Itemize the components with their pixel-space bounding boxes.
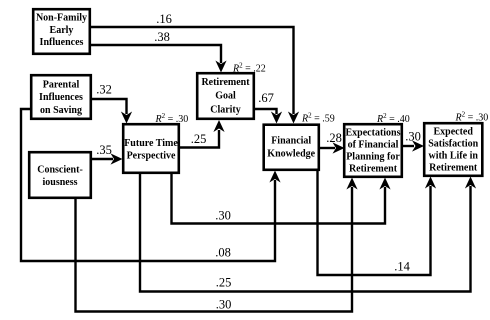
box Future Time Perspective xyxy=(123,124,179,173)
arrowhead .28 into Expectations left xyxy=(333,142,345,153)
svg-text:Retirement: Retirement xyxy=(349,164,398,175)
arrowhead .16 into FK top xyxy=(288,112,299,124)
wire .28 Financial Knowledge to Expectations left xyxy=(320,147,335,149)
svg-text:Knowledge: Knowledge xyxy=(267,148,315,159)
arrowhead .14 into ES bottom xyxy=(425,177,436,189)
svg-text:Future Time: Future Time xyxy=(124,138,178,149)
wire .25 Future Time Perspective to RGC bottom xyxy=(180,130,219,148)
svg-text:.32: .32 xyxy=(96,83,112,97)
svg-text:Expectations: Expectations xyxy=(346,128,401,139)
svg-text:Planning for: Planning for xyxy=(346,152,400,163)
svg-text:.08: .08 xyxy=(215,246,231,260)
wire .14 Financial Knowledge to Expected Satisfaction bottom xyxy=(318,171,431,275)
svg-text:of Financial: of Financial xyxy=(348,140,399,151)
svg-text:R2 = .59: R2 = .59 xyxy=(301,111,335,124)
svg-text:.38: .38 xyxy=(154,30,170,44)
box Retirement Goal Clarity xyxy=(197,73,254,119)
arrowhead .25 into ES bottom xyxy=(465,177,476,189)
arrowhead .30 into Expectations bottom xyxy=(379,178,390,190)
svg-text:Conscient-: Conscient- xyxy=(37,164,83,175)
svg-text:Parental: Parental xyxy=(43,79,80,90)
svg-text:with Life in: with Life in xyxy=(428,151,478,162)
box Non-Family Early Influences xyxy=(33,9,90,54)
svg-text:.14: .14 xyxy=(394,260,410,274)
wire .25 Future Time Perspective to Expected Satisfaction bottom xyxy=(140,174,471,292)
svg-text:Early: Early xyxy=(50,25,74,36)
svg-text:Influences: Influences xyxy=(40,37,84,48)
svg-text:Retirement: Retirement xyxy=(201,77,250,88)
wire .30 Conscientiousness to Expectations bottom xyxy=(76,187,353,312)
box Financial Knowledge xyxy=(264,125,319,170)
svg-text:on Saving: on Saving xyxy=(40,105,82,116)
svg-text:Satisfaction: Satisfaction xyxy=(428,139,478,150)
svg-text:.30: .30 xyxy=(405,130,421,144)
arrowhead .30 into Expectations bottom xyxy=(346,178,357,190)
svg-text:iousness: iousness xyxy=(42,177,77,188)
svg-text:.30: .30 xyxy=(215,209,231,223)
wire .08 Parental to Financial Knowledge bottom xyxy=(21,109,275,261)
svg-text:Clarity: Clarity xyxy=(210,105,241,116)
svg-text:.25: .25 xyxy=(191,132,207,146)
svg-text:.35: .35 xyxy=(96,143,112,157)
svg-text:R2 = .30: R2 = .30 xyxy=(155,112,189,125)
arrowhead .67 into FK top xyxy=(271,112,282,124)
wire .32 path Parental to Future Time Perspective top xyxy=(92,99,127,114)
wire .30 Expectations to Expected Satisfaction left xyxy=(403,145,414,147)
svg-text:.67: .67 xyxy=(258,91,274,105)
box Expected Satisfaction with Life in Retirement xyxy=(424,123,482,176)
wire .67 RGC to Financial Knowledge top xyxy=(255,109,277,114)
box Conscientiousness xyxy=(29,152,91,198)
wire .30 Future Time Perspective to Expectations bottom xyxy=(172,174,386,224)
svg-text:R2 = .30: R2 = .30 xyxy=(455,110,489,123)
svg-text:R2 = .22: R2 = .22 xyxy=(232,62,266,75)
svg-text:Non-Family: Non-Family xyxy=(36,13,87,24)
svg-text:Influences: Influences xyxy=(39,92,83,103)
arrowhead .08 into FK bottom xyxy=(269,171,280,183)
svg-text:Financial: Financial xyxy=(271,136,311,147)
svg-text:Goal: Goal xyxy=(215,91,236,102)
svg-text:.16: .16 xyxy=(156,12,172,26)
arrowhead .35 into FTP left xyxy=(111,153,123,164)
wire .35 Conscientiousness to Future Time Perspective left xyxy=(92,158,113,160)
arrowhead .30 into ES left xyxy=(412,140,424,151)
wire .38 path Non-Family to Retirement Goal Clarity top xyxy=(91,45,221,63)
svg-text:R2 = .40: R2 = .40 xyxy=(376,112,410,125)
svg-text:.28: .28 xyxy=(326,131,342,145)
svg-text:.30: .30 xyxy=(216,298,232,312)
svg-text:Retirement: Retirement xyxy=(429,163,478,174)
wire .16 path Non-Family to Financial Knowledge top xyxy=(91,27,294,114)
svg-text:Expected: Expected xyxy=(433,127,473,138)
arrowhead .32 into FTP top xyxy=(121,112,132,124)
arrowhead .38 into RGC top xyxy=(215,61,226,73)
box Parental Influences on Saving xyxy=(31,75,91,119)
box Expectations of Financial Planning for Retirement xyxy=(344,124,402,177)
svg-text:Perspective: Perspective xyxy=(127,150,176,161)
svg-text:.25: .25 xyxy=(216,276,232,290)
arrowhead .25 into RGC bottom xyxy=(213,120,224,132)
